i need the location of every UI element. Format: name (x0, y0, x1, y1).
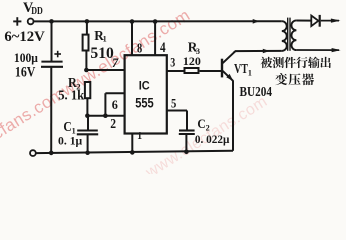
label R1 (94, 28, 106, 43)
wire pin 8 (131, 22, 133, 56)
svg-text:3: 3 (196, 47, 200, 56)
wire emitter to ground rail (232, 80, 234, 150)
junction rail/pin4 (153, 19, 158, 24)
svg-text:0. 022μ: 0. 022μ (195, 132, 230, 146)
plus sign (supply polarity) (13, 17, 21, 26)
label C1 (63, 119, 75, 136)
wire pin 5 (167, 110, 187, 112)
capacitor C2 (179, 111, 195, 152)
junction pin2/pin6 (103, 113, 108, 118)
svg-text:VT: VT (234, 61, 248, 76)
wire secondary top to diode (296, 20, 311, 22)
transformer core (288, 18, 290, 51)
wire bottom rail (36, 151, 233, 153)
svg-text:16V: 16V (15, 65, 36, 81)
junction rail/C1 bottom (85, 150, 90, 155)
watermark stripe 3 (142, 93, 270, 182)
svg-text:5. 1k: 5. 1k (58, 88, 85, 103)
svg-text:1: 1 (103, 34, 107, 43)
wire pin6-pin2 connector (104, 93, 106, 116)
transistor VT1 BU204 (222, 51, 235, 81)
svg-text:2: 2 (110, 116, 116, 131)
wire pin 3 (167, 70, 184, 72)
arrow on collector wire (263, 49, 270, 54)
wire pin 6 (105, 92, 124, 94)
diode (311, 15, 319, 27)
svg-text:100μ: 100μ (14, 51, 38, 65)
wire pin 4 (154, 22, 156, 56)
svg-text:120: 120 (183, 56, 201, 68)
capacitor C1 (77, 116, 98, 153)
op IC 555 box (125, 55, 167, 133)
svg-text:IC: IC (139, 78, 150, 92)
label R2 (68, 75, 81, 91)
svg-text:1: 1 (137, 131, 142, 142)
label (chinese) tested horizontal-output transformer (261, 57, 331, 68)
capacitor C 100u/16V (41, 21, 63, 153)
svg-text:6~12V: 6~12V (4, 29, 45, 45)
label VT1 (234, 61, 252, 77)
svg-text:6: 6 (112, 98, 118, 112)
svg-text:5: 5 (171, 97, 176, 111)
resistor R3 (185, 68, 222, 73)
wire R1/R2 node to pin 7 (86, 69, 124, 71)
svg-text:8: 8 (137, 41, 142, 56)
terminal VDD (28, 19, 34, 25)
wire pin 1 (131, 135, 133, 153)
label C2 (197, 116, 209, 133)
junction C2/ground rail (184, 150, 189, 155)
svg-text:555: 555 (135, 96, 154, 111)
resistor R2 (85, 82, 90, 116)
junction R2/C1/pin2 (85, 113, 90, 118)
wire top rail VDD (34, 20, 282, 22)
junction R1/R2/pin7 (84, 68, 89, 73)
junction rail/pin8 (130, 19, 135, 24)
junction rail/C100 (49, 19, 54, 24)
transformer primary winding (282, 21, 287, 51)
junction rail/C100 bottom (49, 151, 54, 156)
node VDD label (23, 0, 43, 17)
wire collector to transformer primary (235, 50, 282, 52)
svg-text:7: 7 (112, 56, 119, 70)
svg-text:C: C (197, 116, 205, 131)
label R3 (188, 40, 200, 56)
wire diode to output (321, 20, 339, 22)
arrow output bottom (332, 48, 341, 52)
wire secondary bottom output (296, 49, 339, 51)
arrow on top rail (253, 19, 260, 24)
svg-text:4: 4 (160, 40, 166, 56)
transformer secondary winding (291, 20, 296, 50)
terminal ground (30, 150, 36, 156)
svg-text:BU204: BU204 (240, 85, 273, 100)
svg-text:1: 1 (248, 68, 252, 77)
junction rail/R1 (85, 19, 90, 24)
svg-text:DD: DD (31, 6, 43, 17)
resistor R1 (83, 21, 89, 70)
watermark stripe 1 (0, 5, 194, 178)
svg-text:C: C (63, 119, 71, 134)
junction pin1/ground rail (130, 150, 135, 155)
label (chinese) transformer (275, 73, 314, 85)
svg-text:3: 3 (170, 56, 175, 70)
svg-text:0. 1μ: 0. 1μ (58, 133, 83, 147)
svg-text:510: 510 (90, 45, 114, 62)
arrow output top (331, 19, 341, 23)
wire pin 2 (86, 115, 124, 117)
